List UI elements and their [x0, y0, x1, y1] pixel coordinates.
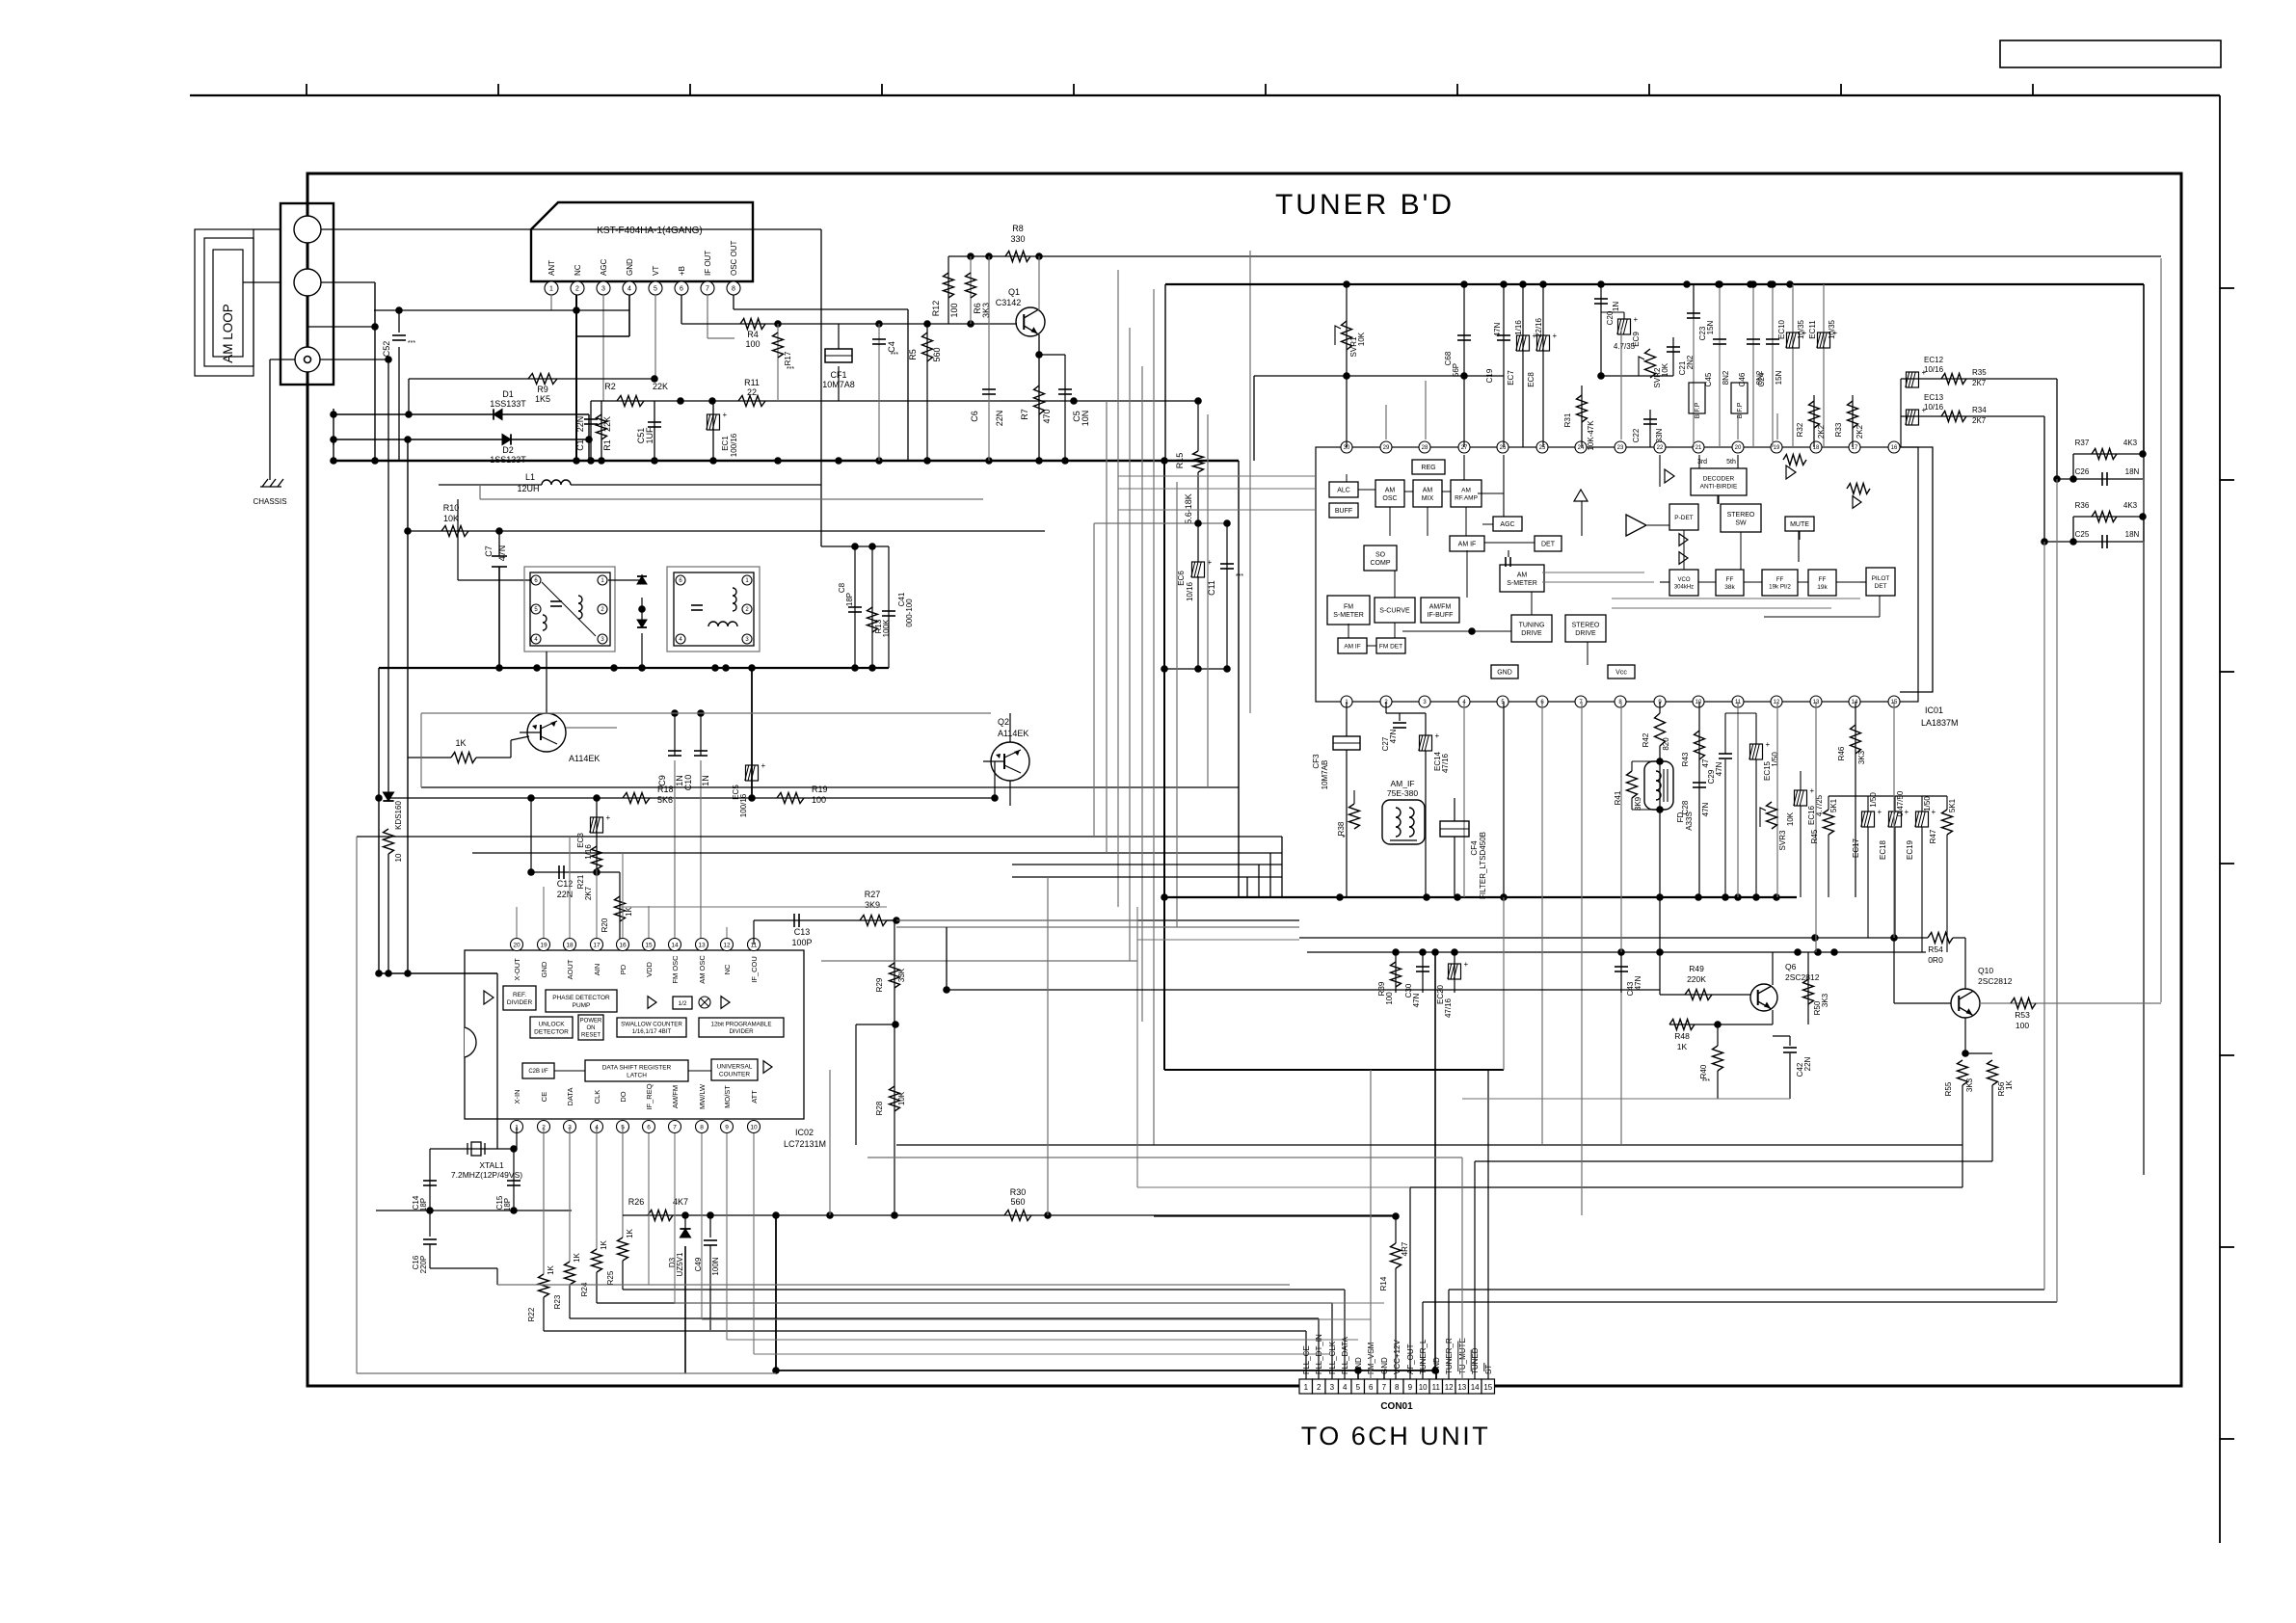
junction: [375, 794, 383, 802]
svg-text:15: 15: [1483, 1383, 1492, 1392]
svg-text:***: ***: [1236, 573, 1243, 580]
svg-text:TUNER_L: TUNER_L: [1419, 1339, 1428, 1374]
resistor R31: [1577, 395, 1588, 422]
IC01 link j: [1587, 642, 1589, 665]
IC01 conn vco in: [1660, 581, 1669, 583]
IC01 FF 19k PI/2: [1762, 570, 1798, 596]
IC02 buffer tri: [484, 991, 494, 1004]
IC01 int res1: [1783, 455, 1806, 466]
wire Q2 down: [1009, 781, 1011, 806]
IC01 bottom pin 4: [1458, 696, 1470, 707]
wire R17: [777, 324, 779, 401]
junction: [1656, 948, 1664, 956]
wire R45 v: [1828, 796, 1829, 810]
wire C25 net: [2044, 541, 2143, 543]
inductor L1: [542, 480, 571, 485]
svg-text:R45: R45: [1810, 829, 1819, 843]
resistor SVR1 10K: [1342, 321, 1352, 350]
IC01 bottom pin 3: [1419, 696, 1430, 707]
wire R15 upper: [1197, 401, 1199, 451]
resistor R27: [860, 916, 887, 926]
svg-text:LC72131M: LC72131M: [784, 1139, 826, 1149]
resistor R35 2K7: [1941, 374, 1966, 385]
junction: [1035, 457, 1043, 465]
svg-text:12: 12: [723, 942, 731, 948]
svg-text:EC13: EC13: [1924, 393, 1944, 402]
capacitor C14: [423, 1180, 437, 1182]
capacitor EC16: [1795, 790, 1807, 806]
diode D1 1SS133T: [494, 409, 502, 419]
svg-text:R30: R30: [1010, 1187, 1027, 1197]
svg-text:19: 19: [540, 942, 547, 948]
wire C20 col: [1600, 284, 1602, 376]
junction: [748, 664, 756, 672]
wire C42 v: [1789, 1036, 1791, 1046]
IC01 AM MIX: [1413, 480, 1442, 507]
wire KST pin8 lead: [733, 295, 734, 309]
wire IC01 pin stub up x1803: [1737, 413, 1739, 439]
junction: [923, 457, 931, 465]
capacitor C46: [1747, 338, 1760, 340]
svg-text:1/2: 1/2: [678, 1000, 686, 1007]
capacitor C15: [507, 1180, 521, 1182]
svg-text:R26: R26: [628, 1197, 645, 1207]
wire AGC net: [591, 400, 1198, 402]
svg-text:C2B I/F: C2B I/F: [528, 1069, 548, 1075]
wire IC01 pin stub up x1844: [1776, 413, 1778, 439]
wire drop e: [1659, 952, 1661, 995]
svg-text:1: 1: [1304, 1383, 1309, 1392]
wire R24 to CON: [597, 1302, 1332, 1304]
IC02 top pin 20: [511, 939, 523, 951]
KST pin 7: [701, 281, 714, 295]
wire EC18 v2: [1894, 827, 1896, 938]
wire EC15 v2: [1755, 759, 1757, 897]
resistor SVR3: [1767, 802, 1777, 829]
IC01 link i: [1531, 592, 1533, 615]
IC01 tri a: [1679, 534, 1688, 546]
svg-text:DIVIDER: DIVIDER: [507, 999, 533, 1006]
T2 pin2: [742, 604, 752, 614]
svg-text:AGC: AGC: [1500, 521, 1514, 528]
IC01 up tri: [1574, 490, 1588, 501]
wire C9: [674, 713, 676, 756]
wire x2242 gray: [2160, 258, 2162, 1002]
AM_IF bar: [1390, 839, 1417, 841]
connector coax jack: [295, 347, 320, 372]
IC01 link c: [1427, 507, 1428, 536]
svg-text:KST-F404HA-1(4GANG): KST-F404HA-1(4GANG): [597, 226, 702, 236]
svg-text:1/16: 1/16: [1514, 320, 1523, 335]
junction: [891, 1211, 898, 1219]
capacitor EC9: [1618, 319, 1631, 334]
svg-text:R5: R5: [908, 349, 918, 360]
wire am loop to connector 2: [243, 281, 280, 283]
wire EC14: [1425, 713, 1427, 735]
junction: [1468, 627, 1476, 635]
svg-text:10K: 10K: [1661, 362, 1669, 377]
junction: [1451, 948, 1458, 956]
svg-text:6: 6: [1369, 1383, 1374, 1392]
IC01 top pin 28: [1419, 441, 1430, 453]
frame right tick: [2220, 671, 2234, 673]
wire R27 right: [887, 919, 1299, 921]
IC02 UNLOCK DETECTOR: [530, 1017, 573, 1038]
svg-text:1K: 1K: [2005, 1079, 2014, 1089]
wire nest v1306: [1258, 865, 1260, 897]
capacitor C49: [704, 1239, 717, 1241]
svg-text:+: +: [1464, 960, 1469, 969]
wire R14 down: [1395, 1268, 1397, 1379]
T2 coil: [708, 622, 737, 626]
IC01 bottom pin 12: [1771, 696, 1782, 707]
wire CON pin15 drop: [1487, 1070, 1489, 1379]
svg-text:38k: 38k: [1724, 584, 1735, 591]
svg-text:21: 21: [1695, 445, 1702, 451]
svg-text:29: 29: [1383, 445, 1390, 451]
IC02 top pin 17: [591, 939, 603, 951]
transformer AM_IF 75E-380: [1382, 800, 1425, 844]
capacitor C5: [1058, 388, 1072, 390]
svg-text:TUNER_R: TUNER_R: [1445, 1338, 1454, 1374]
capacitor C7: [492, 555, 507, 557]
capacitor C19: [1497, 334, 1510, 336]
wire KST pin5 lead: [654, 295, 656, 379]
svg-text:BUFF: BUFF: [1335, 508, 1352, 515]
svg-text:C24: C24: [1757, 372, 1766, 386]
wire D3 down: [684, 1246, 686, 1373]
junction: [893, 917, 900, 924]
wire x1301: [1253, 376, 1255, 461]
resistor R2: [617, 396, 644, 407]
wire CON pin7 drop: [1383, 1370, 1385, 1379]
wire C11: [1226, 523, 1228, 669]
junction: [892, 1021, 899, 1028]
wire R22 top: [543, 1127, 545, 1274]
capacitor C42: [1783, 1047, 1797, 1049]
junction: [1597, 372, 1605, 380]
IC01 conn pin26-AGC: [1503, 455, 1505, 517]
wire C45: [1719, 284, 1721, 447]
svg-text:7: 7: [706, 286, 709, 293]
svg-text:COUNTER: COUNTER: [719, 1071, 750, 1078]
IC01 top pin 24: [1575, 441, 1587, 453]
junction: [1811, 934, 1819, 942]
IC02 int wire 1: [554, 1070, 585, 1072]
wire 1K up: [510, 740, 512, 758]
AM loop inner frame: [213, 250, 243, 357]
wire C43: [1620, 952, 1622, 993]
wire CF1 bot: [838, 366, 840, 401]
wire IC02 top stub x754: [726, 927, 728, 938]
junction: [697, 709, 705, 717]
frame ruler tick: [1265, 84, 1267, 95]
svg-text:560: 560: [932, 347, 942, 361]
junction: [1336, 893, 1344, 901]
IC01 REG: [1412, 460, 1445, 474]
IC01 int w5: [1698, 581, 1716, 583]
svg-text:6: 6: [680, 286, 683, 293]
CON01 overline TU_MUTE: [1457, 1342, 1459, 1372]
wire C46: [1752, 284, 1754, 447]
svg-text:***: ***: [787, 366, 794, 373]
wire KST pin7 lead: [707, 295, 708, 338]
svg-text:TUNER B'D: TUNER B'D: [1275, 189, 1455, 221]
svg-text:220P: 220P: [419, 1256, 428, 1274]
svg-text:P-DET: P-DET: [1674, 515, 1694, 521]
svg-text:DET: DET: [1541, 542, 1556, 548]
wire y1140: [1462, 1098, 1790, 1100]
IC01 FF 19k: [1808, 570, 1836, 596]
svg-text:14: 14: [1471, 1383, 1480, 1392]
svg-text:2SC2812: 2SC2812: [1978, 976, 2013, 986]
junction: [1722, 893, 1729, 901]
wire IC02 pin11 up: [753, 920, 755, 945]
svg-text:TUNING: TUNING: [1519, 622, 1545, 628]
junction: [495, 664, 503, 672]
svg-text:B.F.P: B.F.P: [1695, 402, 1701, 418]
IC02 tri4: [763, 1061, 772, 1074]
svg-text:100N: 100N: [711, 1257, 720, 1275]
svg-text:EC12: EC12: [1924, 356, 1944, 364]
resistor R10: [441, 526, 468, 537]
svg-text:1/16: 1/16: [584, 844, 593, 860]
svg-text:5K6: 5K6: [657, 795, 673, 805]
junction: [1500, 280, 1508, 288]
IC02 REF DIVIDER: [503, 986, 536, 1010]
wire x475: [457, 499, 459, 580]
svg-text:47N: 47N: [1701, 802, 1710, 816]
svg-text:MW/LW: MW/LW: [698, 1083, 707, 1109]
IC02 bottom pin 2: [538, 1121, 550, 1133]
IC02 top pin 18: [564, 939, 576, 951]
IC01 int w10: [1367, 645, 1376, 647]
junction: [875, 320, 883, 328]
svg-text:10/16: 10/16: [1924, 365, 1944, 374]
IC01 STEREO SW: [1721, 504, 1761, 532]
wire harness y1369: [702, 1318, 1371, 1320]
junction: [1617, 948, 1625, 956]
wire band y817: [421, 786, 1239, 788]
wire bundle v3: [1117, 270, 1119, 907]
svg-text:S-CURVE: S-CURVE: [1379, 608, 1410, 615]
IC01 VCO 304kHz: [1669, 570, 1698, 596]
resistor R23 1K: [565, 1262, 575, 1285]
svg-text:+: +: [1932, 808, 1936, 816]
IC01 AM IF: [1450, 536, 1484, 551]
svg-text:R22: R22: [527, 1307, 536, 1321]
svg-text:19k PI/2: 19k PI/2: [1769, 584, 1791, 591]
CON01 pin 2 box: [1313, 1379, 1326, 1394]
resistor R34 2K7: [1941, 412, 1966, 422]
svg-text:16: 16: [619, 942, 627, 948]
resistor R54: [1928, 933, 1953, 944]
svg-text:SW: SW: [1735, 519, 1747, 526]
wire Q2 up: [1009, 713, 1011, 742]
svg-text:ON: ON: [587, 1025, 596, 1031]
resistor R47: [1942, 810, 1953, 835]
IC01 link f: [1394, 571, 1396, 598]
svg-text:VT: VT: [652, 266, 660, 276]
wire C22: [1649, 410, 1651, 447]
wire into IC01 y507: [1118, 488, 1316, 490]
T1 pin1: [598, 575, 607, 585]
resistor R1: [597, 414, 607, 439]
IC01 bottom pin 9: [1654, 696, 1666, 707]
IC01 FM S-METER: [1327, 596, 1370, 625]
wire R22 down: [543, 1297, 545, 1331]
resistor R30: [1004, 1211, 1031, 1221]
wire band y941 ext: [620, 906, 887, 908]
svg-text:1/50: 1/50: [1923, 796, 1932, 811]
svg-text:C10: C10: [683, 775, 693, 791]
wire x2134 vertical: [2056, 379, 2058, 479]
T2 pin3: [742, 634, 752, 644]
wire EC20 col: [1454, 952, 1455, 993]
resistor R 10: [384, 829, 394, 854]
svg-text:1/50: 1/50: [1869, 792, 1878, 808]
diode KDS160: [383, 792, 393, 801]
junction: [1656, 806, 1664, 813]
capacitor C52: [392, 334, 406, 336]
CON01 pin 11 box: [1429, 1379, 1443, 1394]
IC01 big tri: [1626, 515, 1646, 536]
junction: [587, 457, 595, 465]
svg-text:CE: CE: [540, 1092, 548, 1102]
svg-text:VDD: VDD: [645, 962, 654, 977]
junction: [1890, 934, 1898, 942]
capacitor EC8: [1537, 335, 1550, 351]
wire drop d: [1620, 993, 1622, 1145]
svg-text:R27: R27: [865, 890, 881, 899]
svg-text:56P: 56P: [1452, 363, 1460, 377]
transistor Q10 2SC2812: [1951, 989, 1980, 1018]
wire C16 elbow: [430, 1267, 497, 1269]
svg-text:10: 10: [394, 853, 403, 862]
junction: [1392, 948, 1400, 956]
capacitor C12: [558, 865, 560, 879]
svg-text:FM DET: FM DET: [1379, 643, 1402, 650]
svg-text:CON01: CON01: [1380, 1401, 1413, 1412]
T1 pin2: [598, 604, 607, 614]
svg-text:PD: PD: [619, 964, 627, 974]
wire EC10: [1792, 284, 1794, 447]
junction: [598, 457, 605, 465]
IC02 tri2: [648, 997, 656, 1009]
frame ruler tick: [1840, 84, 1842, 95]
wire IC01 pin2 down: [1385, 702, 1387, 713]
svg-text:1K: 1K: [573, 1252, 581, 1262]
IC01 top pin 23: [1615, 441, 1626, 453]
svg-text:5: 5: [1356, 1383, 1361, 1392]
capacitor EC18: [1889, 811, 1902, 827]
wire rail corner drop: [1164, 284, 1166, 461]
svg-text:11: 11: [1432, 1383, 1441, 1392]
capacitor C21: [1667, 346, 1680, 348]
svg-text:EC11: EC11: [1808, 320, 1817, 339]
CON01 pin 4 box: [1339, 1379, 1352, 1394]
svg-text:EC17: EC17: [1852, 838, 1860, 858]
wire D2 to bus: [333, 439, 334, 461]
svg-text:FF: FF: [1776, 576, 1784, 583]
wire EC17 v: [1867, 796, 1869, 811]
svg-text:22/16: 22/16: [1535, 317, 1543, 337]
svg-text:PLL_CE: PLL_CE: [1302, 1345, 1311, 1374]
svg-text:7: 7: [1382, 1383, 1387, 1392]
IC01 top pin 26: [1497, 441, 1508, 453]
svg-text:R25: R25: [606, 1270, 615, 1285]
svg-text:S-METER: S-METER: [1507, 580, 1537, 587]
junction: [404, 527, 412, 535]
resistor R19: [777, 793, 804, 804]
wire y1010: [379, 972, 497, 974]
wire R23 down: [569, 1285, 571, 1318]
wire C49 down: [709, 1245, 711, 1330]
junction: [1354, 1367, 1362, 1374]
svg-text:2: 2: [1317, 1383, 1322, 1392]
wire R37C26 right post: [2143, 454, 2145, 479]
wire band y962: [896, 926, 1299, 928]
wire R22 to CON: [544, 1330, 1306, 1332]
wire IC02 top stub x591: [569, 837, 571, 938]
frame right tick: [2220, 479, 2234, 481]
junction: [875, 457, 883, 465]
svg-text:5th: 5th: [1726, 459, 1736, 466]
capacitor C27: [1393, 722, 1406, 724]
wire bundle v6: [1153, 289, 1155, 1145]
svg-text:2SC2812: 2SC2812: [1785, 972, 1820, 982]
IC01 conn y621: [1612, 598, 1860, 599]
wire IC01 pin stub up x1479: [1425, 381, 1427, 439]
wire Q1 emitter branch: [1039, 354, 1065, 356]
svg-text:R12: R12: [931, 301, 941, 317]
svg-text:EC1: EC1: [721, 436, 730, 451]
svg-text:CF1: CF1: [830, 370, 846, 380]
svg-text:AM LOOP: AM LOOP: [221, 304, 235, 363]
IC01 tri d: [1853, 496, 1861, 509]
wire R24 down: [596, 1272, 598, 1303]
resistor R45: [1824, 810, 1834, 835]
resistor R50: [1803, 979, 1814, 1004]
wire KST pin1 lead: [550, 295, 552, 310]
svg-text:4.7/35: 4.7/35: [1614, 342, 1636, 351]
wire R36 net: [2073, 516, 2143, 518]
junction: [1752, 893, 1760, 901]
IC IC01 LA1837M outline: [1316, 447, 1918, 702]
svg-text:DRIVE: DRIVE: [1575, 630, 1596, 637]
junction: [1794, 948, 1802, 956]
svg-text:10N: 10N: [1081, 411, 1090, 427]
junction: [1161, 893, 1168, 901]
wire x1965 seg: [1893, 938, 1895, 1003]
wire KST pin4 lead: [628, 295, 630, 336]
wire R40 v2: [1717, 1071, 1719, 1099]
svg-text:RF.AMP: RF.AMP: [1455, 494, 1478, 501]
svg-text:3K3: 3K3: [1821, 993, 1829, 1007]
svg-text:3K9: 3K9: [865, 900, 880, 910]
capacitor C8: [848, 606, 862, 608]
wire y1201 long: [868, 1157, 1462, 1158]
svg-text:22: 22: [747, 387, 757, 397]
svg-text:R19: R19: [812, 785, 828, 794]
IC01 bottom pin 13: [1810, 696, 1822, 707]
CON01 pin 14 box: [1469, 1379, 1482, 1394]
svg-text:C1: C1: [575, 439, 585, 451]
wire into IC01 y529: [1118, 509, 1316, 511]
svg-text:10: 10: [1419, 1383, 1428, 1392]
wire R21 to pin: [596, 869, 598, 938]
IC01 int w9: [1482, 523, 1493, 525]
